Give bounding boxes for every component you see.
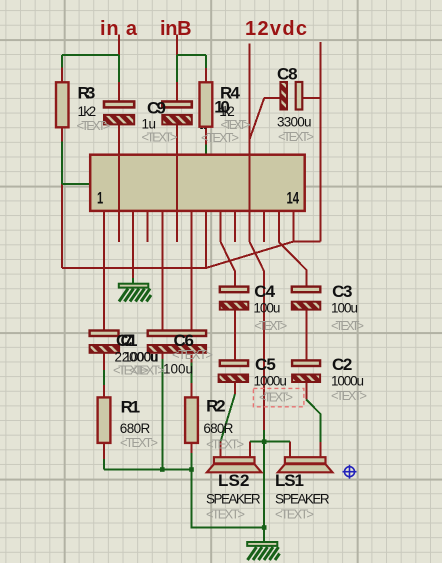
svg-text:C1: C1 [121, 331, 138, 350]
svg-text:<TEXT>: <TEXT> [206, 437, 244, 452]
svg-text:680R: 680R [120, 421, 151, 436]
svg-text:SPEAKER: SPEAKER [275, 492, 330, 507]
svg-text:<TEXT>: <TEXT> [331, 318, 364, 333]
svg-text:SPEAKER: SPEAKER [206, 492, 261, 507]
svg-text:1000u: 1000u [331, 374, 364, 389]
svg-text:C8: C8 [277, 65, 298, 84]
svg-text:in a: in a [100, 18, 138, 40]
svg-text:<TEXT>: <TEXT> [206, 507, 245, 522]
svg-text:12vdc: 12vdc [245, 18, 307, 40]
svg-text:<TEXT>: <TEXT> [278, 129, 314, 144]
svg-text:<TEXT>: <TEXT> [172, 347, 213, 362]
svg-text:C5: C5 [255, 355, 276, 374]
svg-text:C4: C4 [254, 282, 275, 301]
svg-text:LS1: LS1 [275, 471, 304, 490]
svg-text:C9: C9 [147, 99, 166, 118]
svg-text:<TEXT>: <TEXT> [142, 130, 178, 145]
svg-text:<TEXT>: <TEXT> [120, 435, 158, 450]
svg-text:100u: 100u [163, 362, 193, 377]
svg-text:<TEXT>: <TEXT> [129, 363, 165, 378]
svg-text:1k2: 1k2 [78, 104, 97, 119]
svg-text:<TEXT>: <TEXT> [201, 130, 239, 145]
svg-text:R3: R3 [78, 84, 96, 103]
svg-text:3300u: 3300u [277, 115, 312, 130]
svg-text:<TEXT>: <TEXT> [259, 390, 293, 405]
svg-text:1: 1 [97, 188, 103, 207]
svg-text:<TEXT>: <TEXT> [331, 388, 367, 403]
svg-text:inB: inB [160, 18, 192, 40]
svg-text:100u: 100u [253, 300, 280, 315]
svg-text:R2: R2 [206, 397, 226, 416]
svg-text:100u: 100u [331, 300, 358, 315]
svg-text:C2: C2 [332, 355, 352, 374]
svg-text:C3: C3 [332, 282, 352, 301]
svg-text:680R: 680R [203, 421, 233, 436]
svg-text:1000u: 1000u [254, 374, 287, 389]
svg-text:R1: R1 [121, 398, 141, 417]
svg-text:<TEXT>: <TEXT> [77, 118, 111, 133]
svg-text:14: 14 [287, 188, 300, 207]
svg-text:LS2: LS2 [218, 471, 250, 490]
svg-text:<TEXT>: <TEXT> [275, 507, 314, 522]
svg-text:<TEXT>: <TEXT> [254, 318, 287, 333]
